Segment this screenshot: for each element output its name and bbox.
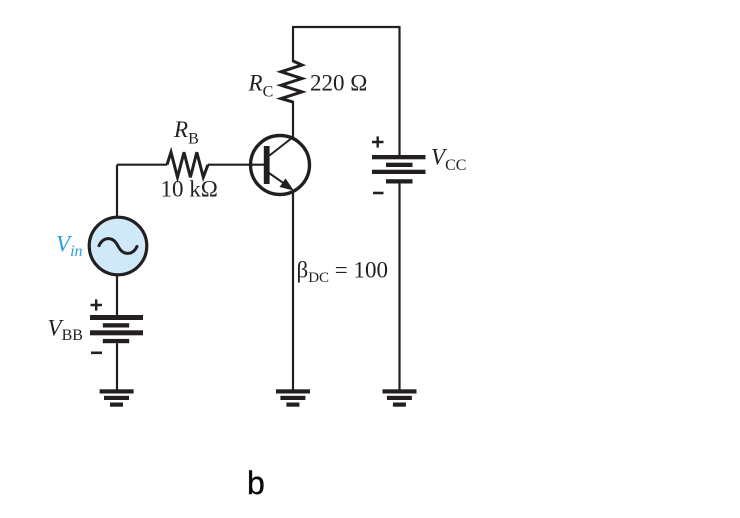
wire emitter to ground [292, 193, 294, 390]
plus sign VBB [91, 299, 103, 310]
resistor RC [281, 61, 302, 102]
plus sign VCC [372, 136, 384, 147]
ground (Vin branch) [100, 389, 134, 406]
resistor RB [167, 152, 208, 177]
battery VCC [372, 155, 426, 184]
ground (VCC branch) [383, 389, 417, 406]
svg-text:VCC: VCC [431, 145, 466, 175]
svg-text:RB: RB [173, 117, 199, 147]
wire collector vertical (RC bottom to transistor) [292, 101, 294, 137]
source Vin [89, 217, 147, 275]
svg-text:RC: RC [248, 71, 274, 101]
svg-text:VBB: VBB [48, 316, 83, 345]
svg-text:βDC = 100: βDC = 100 [297, 258, 389, 287]
svg-text:220 Ω: 220 Ω [310, 70, 367, 95]
minus sign VCC [373, 192, 384, 195]
svg-text:Vin: Vin [56, 232, 83, 261]
wire VBB to ground [116, 343, 118, 389]
transistor Q1 [251, 136, 310, 195]
minus sign VBB [91, 351, 102, 354]
ground (emitter branch) [276, 389, 310, 406]
wire Vin to VBB [116, 275, 118, 315]
svg-text:b: b [247, 465, 265, 501]
wire base (left rail to transistor base) [117, 164, 167, 166]
wire top rail from RC top to VCC top [293, 27, 400, 155]
wire VCC to ground [398, 183, 400, 390]
wire left vertical (base corner down to Vin) [116, 165, 118, 217]
svg-text:10 kΩ: 10 kΩ [161, 177, 218, 202]
battery VBB [90, 315, 143, 343]
